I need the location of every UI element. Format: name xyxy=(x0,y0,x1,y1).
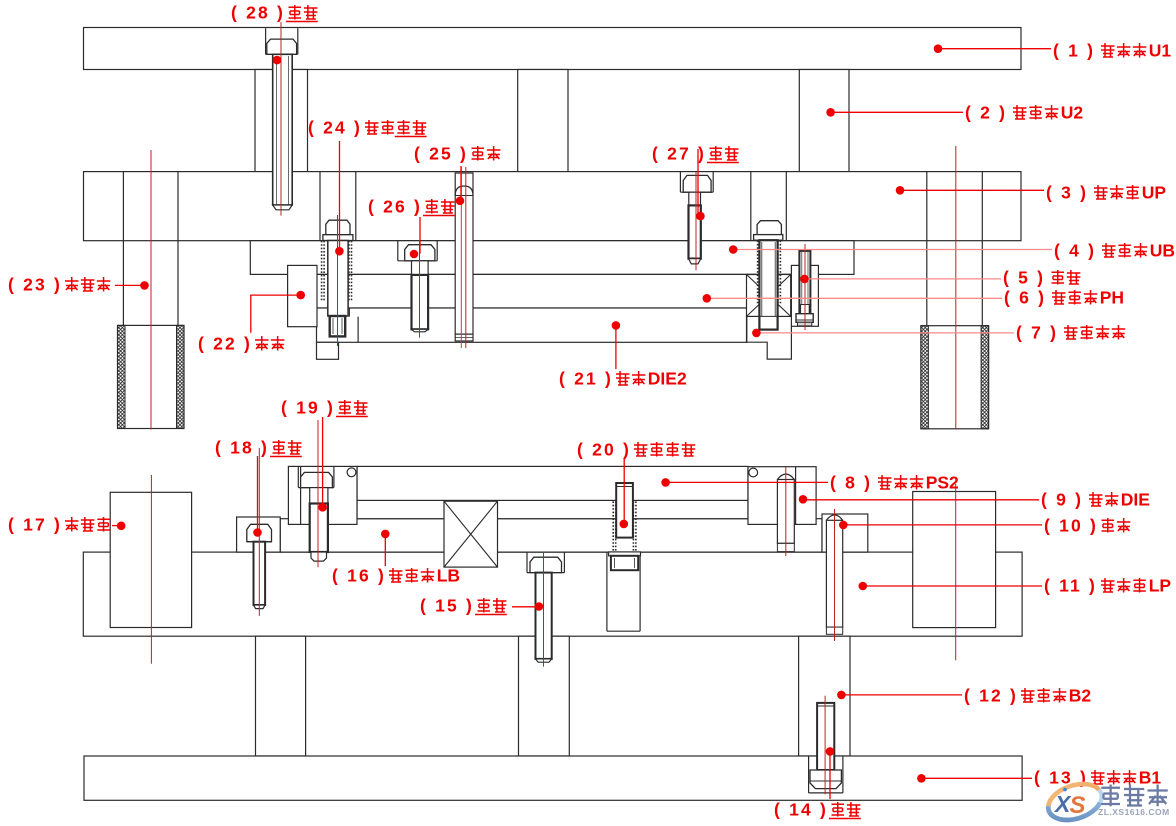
right outer guide bushing xyxy=(913,492,996,628)
svg-text:( 21 ): ( 21 ) xyxy=(559,369,613,389)
label 28 ( 28 )螺丝 xyxy=(231,3,318,23)
label 4 ( 4 )上垫板UB xyxy=(1054,241,1175,261)
left guide post line L xyxy=(122,172,124,326)
DIE right block divider xyxy=(795,467,797,525)
pin10 centerline xyxy=(834,509,836,641)
svg-text:LB: LB xyxy=(437,566,460,586)
right guide bushing hatched xyxy=(921,326,989,429)
screw27 notch wall R xyxy=(712,172,714,193)
label 19 ( 19 )螺丝 xyxy=(281,398,368,418)
svg-text:( 8 ): ( 8 ) xyxy=(830,473,872,493)
svg-text:( 20 ): ( 20 ) xyxy=(577,440,631,460)
DIE2 pocket step line near screw24 xyxy=(357,317,359,343)
plate LP lower die holder (11) xyxy=(83,552,1022,636)
svg-text:( 2 ): ( 2 ) xyxy=(965,103,1007,123)
svg-text:( 6 ): ( 6 ) xyxy=(1004,288,1046,308)
svg-text:( 24 ): ( 24 ) xyxy=(308,118,362,138)
svg-text:( 9 ): ( 9 ) xyxy=(1041,490,1083,510)
svg-text:( 10 ): ( 10 ) xyxy=(1044,516,1098,536)
label 8 ( 8 )下脱板PS2 xyxy=(830,473,959,493)
plate DIE lower die (9) xyxy=(357,500,748,518)
screw5 pocket outline xyxy=(791,265,818,326)
screw27 notch bottom xyxy=(680,191,713,193)
label 17 ( 17 )外导套 xyxy=(8,515,110,535)
screw 15 xyxy=(526,552,528,573)
label 14 ( 14 )螺丝 xyxy=(774,800,861,820)
plate PS2 lower stripper plate (8) xyxy=(357,466,748,500)
dowel pin 10 xyxy=(826,520,842,627)
leader label 12 xyxy=(841,694,962,696)
svg-text:ZL.XS1616.COM: ZL.XS1616.COM xyxy=(1098,807,1170,817)
svg-text:UB: UB xyxy=(1150,241,1175,261)
svg-text:( 5 ): ( 5 ) xyxy=(1003,268,1045,288)
dowel pin 25 xyxy=(455,173,473,341)
leader label 21 xyxy=(615,325,617,369)
leader label 6 xyxy=(707,297,1002,299)
svg-text:( 15 ): ( 15 ) xyxy=(420,596,474,616)
leader label 5 xyxy=(805,278,1002,280)
pin25 centerline b xyxy=(465,167,467,348)
pin25 centerline a xyxy=(460,167,462,348)
svg-text:( 14 ): ( 14 ) xyxy=(774,800,828,820)
screw24 notch wall L xyxy=(319,172,321,241)
svg-text:( 25 ): ( 25 ) xyxy=(414,144,468,164)
PS2 left block divider xyxy=(300,466,302,524)
leader label 11 xyxy=(863,585,1042,587)
screw 19 xyxy=(297,466,299,487)
svg-text:DIE2: DIE2 xyxy=(648,369,687,389)
leader label 8 xyxy=(666,481,828,483)
leader label 13 xyxy=(921,777,1032,779)
label 5 ( 5 )螺丝 xyxy=(1003,268,1080,288)
plate UB upper backing plate (4) xyxy=(250,241,854,275)
right lower bushing centerline xyxy=(955,484,957,660)
svg-text:PS2: PS2 xyxy=(926,473,959,493)
screw 5 (head-down) xyxy=(799,251,810,314)
upper X insert block xyxy=(747,275,791,317)
left guide bushing hatched xyxy=(118,325,185,428)
screw28 centerline xyxy=(280,22,282,216)
svg-text:( 19 ): ( 19 ) xyxy=(281,398,335,418)
svg-text:( 18 ): ( 18 ) xyxy=(215,438,269,458)
label 18 ( 18 )螺丝 xyxy=(215,438,302,458)
svg-text:( 12 ): ( 12 ) xyxy=(964,686,1018,706)
leader label 14 xyxy=(829,751,831,799)
leader label 15 xyxy=(512,606,539,608)
label 21 ( 21 )上模DIE2 xyxy=(559,369,687,389)
screw 20 shoulder screw xyxy=(612,501,614,552)
svg-text:( 22 ): ( 22 ) xyxy=(198,334,252,354)
sleeve screw notch wall R xyxy=(785,172,787,241)
svg-text:( 1 ): ( 1 ) xyxy=(1053,41,1095,61)
label 10 ( 10 )合销 xyxy=(1044,516,1130,536)
plate DIE2 upper die (21) xyxy=(317,308,747,342)
leader label 19 xyxy=(322,417,324,507)
label 26 ( 26 )螺丝 xyxy=(368,197,455,217)
screw24 centerline xyxy=(337,215,339,346)
leader label 3 xyxy=(900,189,1044,191)
screw24 notch wall R xyxy=(355,172,357,241)
lower spacer block B2 a xyxy=(256,636,306,756)
DIE2 pocket step small line xyxy=(348,308,350,317)
screw28 counterbore wall right xyxy=(297,28,299,54)
label 7 ( 7 )上定位块 xyxy=(1016,323,1125,343)
screw 18 xyxy=(247,524,272,541)
svg-text:( 7 ): ( 7 ) xyxy=(1016,323,1058,343)
leader label 20 xyxy=(623,459,625,524)
label 16 ( 16 )下垫板LB xyxy=(332,566,460,586)
leader label 28 (dot on screw) xyxy=(273,56,282,65)
PS2 left raised block xyxy=(288,466,357,524)
leader label 26 xyxy=(419,217,421,254)
label 9 ( 9 )下模DIE xyxy=(1041,490,1150,510)
leader label 18 xyxy=(257,456,259,533)
sleeve screw body xyxy=(759,240,777,329)
label 23 ( 23 )外导柱 xyxy=(8,275,110,295)
svg-text:( 3 ): ( 3 ) xyxy=(1046,183,1088,203)
DIE right raised block xyxy=(748,467,816,525)
plate UP upper die holder (3) xyxy=(84,172,1022,241)
label 22 ( 22 )档块 xyxy=(198,334,284,354)
screw 20 shoulder screw pocket in LP xyxy=(606,552,608,631)
plate PH upper clamp plate (6) xyxy=(317,274,791,308)
left guide post line R xyxy=(177,172,179,326)
svg-text:B2: B2 xyxy=(1069,686,1092,706)
leader label 23 xyxy=(115,284,145,286)
screw 27 xyxy=(683,175,711,192)
svg-text:( 16 ): ( 16 ) xyxy=(332,566,386,586)
svg-text:( 28 ): ( 28 ) xyxy=(231,3,285,23)
plate LB lower backing plate (16) xyxy=(280,519,822,552)
watermark logo XS ziliao wang xyxy=(1044,778,1170,826)
label 24 ( 24 )等套螺丝 xyxy=(308,118,427,138)
leader label 7 xyxy=(756,332,1014,334)
svg-text:( 11 ): ( 11 ) xyxy=(1044,576,1097,596)
left lower bushing centerline xyxy=(150,475,152,664)
leader label 22 xyxy=(251,295,301,333)
label 20 ( 20 )等高螺丝 xyxy=(577,440,695,460)
right guide post centerline xyxy=(955,146,957,429)
label 1 ( 1 )上托板U1 xyxy=(1053,41,1171,61)
screw28 counterbore wall left xyxy=(265,28,267,54)
leader label 9 xyxy=(803,499,1039,501)
sleeve screw head (upper locating assembly) xyxy=(757,221,781,235)
screw 28 xyxy=(267,39,297,54)
screw26 centerline xyxy=(419,240,421,338)
leader label 25 xyxy=(460,166,462,201)
svg-text:LP: LP xyxy=(1149,576,1172,596)
label 2 ( 2 )上垫块U2 xyxy=(965,103,1083,123)
svg-text:U1: U1 xyxy=(1149,41,1172,61)
screw27 centerline xyxy=(695,172,697,270)
screw 14 (head-down) xyxy=(808,756,810,793)
leader label 1 xyxy=(938,48,1051,50)
leader label 4 xyxy=(733,249,1052,251)
pin centerline xyxy=(785,467,787,556)
left outer guide bushing (17) xyxy=(110,492,191,627)
label 3 ( 3 )上模座UP xyxy=(1046,183,1166,203)
pin10 seat step block xyxy=(822,514,868,552)
lower spacer block B2 c (12) xyxy=(799,636,850,756)
screw18 centerline xyxy=(258,448,260,616)
leader label 24 xyxy=(339,141,341,251)
leader label 2 xyxy=(831,111,963,113)
screw15 centerline xyxy=(543,552,545,667)
sleeve screw notch wall L xyxy=(750,172,752,241)
svg-text:DIE: DIE xyxy=(1121,490,1150,510)
leader label 17 xyxy=(112,525,121,527)
lower spacer block B2 b xyxy=(519,636,570,756)
dowel pin (upper, in DIE right block) xyxy=(777,480,794,544)
label 25 ( 25 )合销 xyxy=(414,144,500,164)
plate B1 bottom holder plate (13) xyxy=(84,756,1022,800)
upper spacer block U2 b xyxy=(518,70,568,172)
label 15 ( 15 )螺丝 xyxy=(420,596,507,616)
right guide post line R xyxy=(981,172,983,326)
upper spacer block U2 a xyxy=(255,70,308,172)
screw5 centerline xyxy=(804,244,806,330)
stop block (22) xyxy=(288,265,317,326)
label 6 ( 6 )上夹板PH xyxy=(1004,288,1124,308)
DIE2 left bottom boss xyxy=(317,342,339,359)
right guide post line L xyxy=(926,172,928,326)
svg-text:UP: UP xyxy=(1142,183,1167,203)
leader label 27 xyxy=(697,149,699,216)
svg-text:( 23 ): ( 23 ) xyxy=(8,275,62,295)
screw19 centerline xyxy=(317,420,319,567)
upper spacer block U2 c (2) xyxy=(799,70,849,172)
label 11 ( 11 )下模座LP xyxy=(1044,576,1171,596)
hole circle right block xyxy=(749,468,758,477)
sleeve screw spring strips xyxy=(757,241,759,304)
svg-text:( 17 ): ( 17 ) xyxy=(8,515,62,535)
svg-text:S: S xyxy=(1070,792,1086,819)
leader label 10 xyxy=(843,524,1042,526)
screw 26 xyxy=(397,240,399,261)
svg-text:( 4 ): ( 4 ) xyxy=(1054,241,1096,261)
leader label 16 xyxy=(384,534,386,566)
screw 24 sleeve screw xyxy=(326,220,350,235)
svg-text:( 27 ): ( 27 ) xyxy=(652,144,706,164)
lower X insert block xyxy=(444,501,498,567)
label 12 ( 12 )下垫块B2 xyxy=(964,686,1091,706)
label 13 ( 13 )下托板B1 xyxy=(1034,768,1161,788)
svg-text:( 26 ): ( 26 ) xyxy=(368,197,422,217)
LB left end block (screw18 seat) xyxy=(237,517,281,552)
screw14 centerline xyxy=(824,696,826,795)
plate U1 top holder plate (1) xyxy=(84,28,1022,70)
hole circle left block xyxy=(347,468,356,477)
screw28 counterbore bottom xyxy=(266,53,298,55)
svg-text:U2: U2 xyxy=(1061,103,1084,123)
svg-text:PH: PH xyxy=(1100,288,1124,308)
label 27 ( 27 )螺丝 xyxy=(652,144,739,164)
left guide post centerline xyxy=(150,150,152,430)
screw27 notch wall L xyxy=(679,172,681,193)
upper locating block boss (7) xyxy=(747,316,792,359)
